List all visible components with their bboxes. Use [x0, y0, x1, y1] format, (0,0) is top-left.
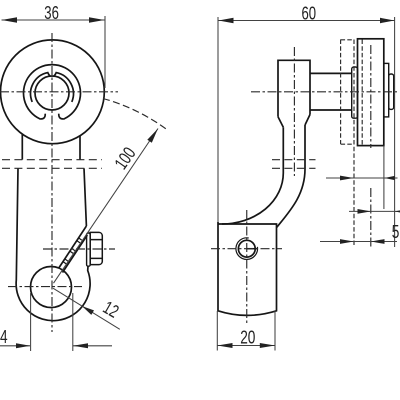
roller circle	[31, 267, 72, 308]
mounting plane dashed line 1 (left view)	[2, 159, 102, 161]
extension line right of 36	[104, 16, 106, 88]
svg-text:5: 5	[392, 222, 400, 242]
mounting plane dashed line 2 (left view)	[2, 167, 102, 169]
clamp centre line vertical	[246, 210, 248, 324]
lever lower right edge	[84, 168, 86, 226]
centre line vertical (left view)	[51, 33, 53, 332]
pin top edge	[310, 72, 352, 74]
cap plate	[384, 63, 389, 117]
arrow bottom-right	[73, 343, 88, 348]
hidden line blade right	[353, 40, 355, 248]
dimension 20	[217, 311, 275, 351]
arm left edge + bend	[222, 127, 283, 224]
swing arc dashed	[103, 99, 168, 131]
pin axis horizontal	[251, 91, 399, 93]
dim2 arrow a	[358, 209, 371, 214]
dim line 1	[326, 177, 398, 179]
arrow 36 right	[89, 17, 105, 22]
arrow 60 right	[380, 18, 395, 23]
dim3 arrow b	[371, 239, 385, 244]
e-clip left inner arc	[31, 73, 51, 102]
dim3 arrow a	[340, 239, 354, 244]
svg-text:20: 20	[240, 327, 255, 347]
arrow 60 left	[219, 18, 234, 23]
arm right edge + bend	[277, 125, 305, 228]
dim1 arrow b	[384, 176, 394, 180]
pin bottom edge	[310, 109, 352, 111]
thread arc	[236, 238, 258, 260]
dimension stack right	[320, 146, 400, 242]
hidden rect top edge	[341, 39, 354, 41]
extension line 60 right	[394, 17, 396, 247]
extension line left	[30, 293, 32, 351]
mounting plane dashed line 2 (right view)	[272, 167, 316, 169]
screw hole circle	[238, 240, 255, 257]
lever upper left edge	[21, 134, 23, 159]
leader 100	[54, 129, 159, 284]
hidden line blade left	[340, 40, 342, 145]
extension line 20 right	[274, 311, 276, 351]
mounting plane dashed line 1 (right view)	[272, 159, 316, 161]
head chamfer left	[278, 117, 283, 128]
dim1 arrow a	[340, 176, 354, 181]
disc centre line	[370, 45, 372, 247]
blade hatch ticks	[63, 238, 82, 264]
centre line horizontal (head axis)	[0, 91, 118, 93]
rivet bump	[389, 74, 394, 109]
extension line 20 left	[216, 311, 218, 351]
dim2 arrow b	[395, 209, 400, 214]
dimension 36 line	[2, 16, 106, 88]
head chamfer right	[305, 115, 310, 126]
svg-text:4: 4	[0, 327, 8, 347]
hole axis horizontal	[211, 248, 282, 250]
shaft circle	[35, 76, 69, 110]
slot tick	[247, 248, 258, 250]
centre line horizontal (roller axis)	[8, 286, 82, 288]
big head circle	[1, 40, 105, 144]
leader 12	[53, 288, 120, 329]
head centre line vertical	[293, 47, 295, 176]
dim line 3	[320, 241, 397, 243]
arrow 36 left	[2, 17, 18, 22]
e-clip outer ring with curled ends	[23, 65, 80, 119]
dimension 60	[218, 17, 395, 247]
e-clip right inner arc	[53, 73, 73, 102]
hex nut	[90, 232, 102, 264]
lever upper right edge	[79, 136, 81, 160]
arrow 100	[147, 129, 158, 143]
arrow 20 right	[260, 343, 275, 348]
clamp body	[218, 222, 277, 315]
washer (side view)	[352, 67, 358, 118]
svg-text:36: 36	[44, 3, 59, 23]
arrow bottom-left	[16, 343, 30, 348]
extension disc right	[383, 146, 385, 209]
head outline	[278, 60, 310, 116]
roller disc	[358, 39, 384, 146]
lever lower left edge + end arc	[16, 168, 90, 320]
hidden rect bottom edge	[341, 143, 354, 145]
washer (left view)	[87, 233, 91, 266]
arrow 12	[82, 306, 94, 315]
dim line 2	[349, 210, 400, 212]
bottom dimension (roller dia)	[0, 293, 112, 351]
extension line 60 left	[217, 17, 219, 222]
centre line horizontal (bolt axis)	[43, 248, 115, 250]
extension line right	[72, 293, 74, 351]
blade edge 1	[59, 226, 87, 268]
svg-text:60: 60	[302, 3, 317, 23]
hidden line groove	[361, 40, 363, 146]
blade edge 2	[63, 235, 88, 273]
arrow 20 left	[217, 343, 232, 348]
